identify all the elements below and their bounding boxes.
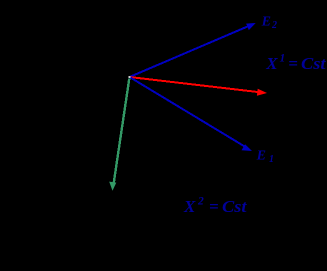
svg-text:2: 2 xyxy=(271,20,277,31)
wire: green vector downward xyxy=(114,79,130,185)
svg-text:X: X xyxy=(265,54,278,73)
wire: blue basis line toward E2 xyxy=(130,25,253,77)
node: origin dot xyxy=(129,76,131,78)
arrowhead of E2 vector xyxy=(246,23,256,30)
arrowhead of E1 vector xyxy=(242,144,253,151)
svg-text:Cst: Cst xyxy=(301,54,327,73)
svg-text:1: 1 xyxy=(269,154,274,165)
svg-text:=: = xyxy=(288,54,298,73)
svg-text:2: 2 xyxy=(197,196,204,208)
wire: red vector xyxy=(130,77,263,93)
arrowhead of green vector xyxy=(109,182,116,191)
svg-text:1: 1 xyxy=(280,53,286,65)
svg-text:Cst: Cst xyxy=(222,197,248,216)
wire: blue basis line toward E1 xyxy=(130,77,249,149)
svg-text:E: E xyxy=(256,149,266,164)
svg-text:E: E xyxy=(261,15,271,30)
svg-text:=: = xyxy=(209,197,219,216)
arrowhead of red vector xyxy=(257,89,267,96)
svg-text:X: X xyxy=(183,197,196,216)
